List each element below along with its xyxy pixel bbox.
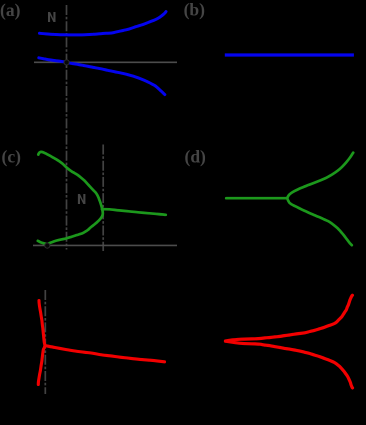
svg-text:(c): (c) — [2, 147, 22, 167]
svg-text:(a): (a) — [0, 0, 21, 20]
svg-text:(d): (d) — [185, 147, 207, 167]
svg-text:(b): (b) — [184, 0, 206, 20]
